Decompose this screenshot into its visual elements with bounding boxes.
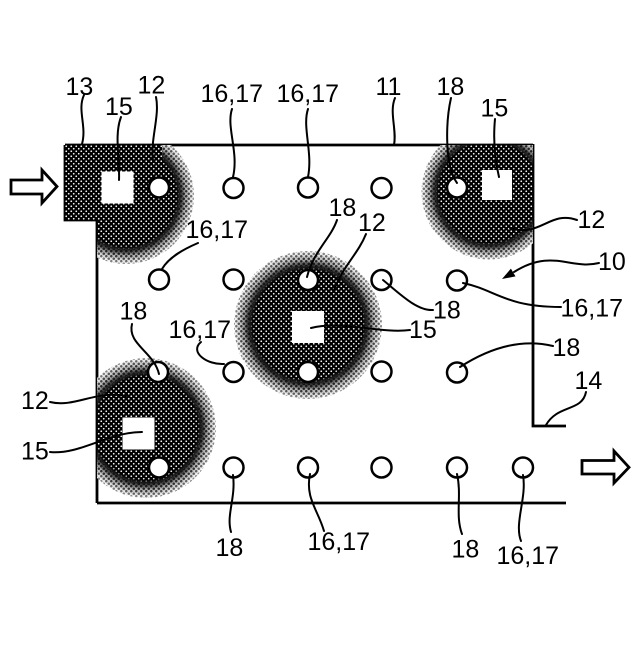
svg-text:15: 15 xyxy=(21,438,49,466)
hole 16,17 at (159,279.5) xyxy=(149,270,169,290)
leader 16,17 mid-left xyxy=(162,243,198,269)
hole 16,17 at (523,467.5) xyxy=(513,458,533,478)
center shaded circle 12 xyxy=(234,251,382,399)
svg-text:12: 12 xyxy=(138,72,166,100)
svg-text:14: 14 xyxy=(575,367,603,395)
leader 12 bottom-left xyxy=(50,395,126,403)
disc 18 top-right xyxy=(447,178,467,198)
leader 12 right xyxy=(510,218,577,230)
svg-text:15: 15 xyxy=(481,95,509,123)
svg-text:16,17: 16,17 xyxy=(308,528,371,556)
leader 16,17 bottom1 xyxy=(309,474,324,531)
left edge and inlet notch xyxy=(65,145,97,503)
svg-text:15: 15 xyxy=(409,316,437,344)
inlet block 13 (dark halftone rectangle) xyxy=(65,145,162,220)
top-right shaded circle 12 xyxy=(422,125,557,260)
hole 16,17 at (457,467.5) xyxy=(447,458,467,478)
leader 18 center-top xyxy=(307,220,337,277)
disc 18 bottom-left upper xyxy=(148,362,168,382)
hole 16,17 at (233.5,467.5) xyxy=(224,458,244,478)
leader 11 xyxy=(393,98,395,145)
hole 16,17 at (308,187.5) xyxy=(298,178,318,198)
hole 16,17 at (308,467.5) xyxy=(298,458,318,478)
svg-text:18: 18 xyxy=(329,194,357,222)
arrowhead for 10 xyxy=(502,269,516,279)
leader 18 bottom1 xyxy=(230,475,234,532)
svg-text:16,17: 16,17 xyxy=(201,80,264,108)
leader lines xyxy=(50,95,599,541)
hole 16,17 at (233.5,188) xyxy=(224,178,244,198)
hole 16,17 at (381.5,371.5) xyxy=(372,362,392,382)
svg-text:18: 18 xyxy=(216,534,244,562)
svg-text:16,17: 16,17 xyxy=(277,80,340,108)
inlet arrow xyxy=(11,170,57,203)
svg-text:15: 15 xyxy=(105,93,133,121)
disc 18 center top xyxy=(298,270,318,290)
svg-text:18: 18 xyxy=(433,297,461,325)
leader 15 top-left xyxy=(118,117,121,180)
square hole 15 (top-left) xyxy=(102,172,134,204)
outlined holes 16,17 xyxy=(149,178,533,478)
top edge xyxy=(65,144,533,147)
leader 15 bottom-left xyxy=(50,432,142,452)
svg-text:16,17: 16,17 xyxy=(561,295,624,323)
bottom edge xyxy=(97,502,566,505)
hole 16,17 at (381.5,280) xyxy=(372,270,392,290)
right edge with outlet step 14 xyxy=(533,144,566,426)
leader 13 xyxy=(81,95,84,144)
leader 16,17 bottom2 xyxy=(519,475,524,541)
leader 16,17 lower-mid xyxy=(197,342,224,364)
square hole 15 (center) xyxy=(292,311,324,343)
leader 15 top-right xyxy=(494,119,499,177)
svg-text:10: 10 xyxy=(598,248,626,276)
hole 16,17 at (457,280.5) xyxy=(447,271,467,291)
svg-text:16,17: 16,17 xyxy=(169,316,232,344)
leader 18 bottom2 xyxy=(457,474,462,534)
top-left shaded circle 12 xyxy=(58,128,194,264)
bottom-left shaded circle 12 xyxy=(76,358,216,498)
hole 16,17 at (233.5,372) xyxy=(224,362,244,382)
leader 12 center xyxy=(334,234,366,290)
leader 16,17 top2 xyxy=(306,109,309,177)
svg-text:18: 18 xyxy=(553,334,581,362)
leader 18 left-mid xyxy=(131,324,159,374)
outlet arrow xyxy=(582,451,629,483)
svg-text:12: 12 xyxy=(21,387,49,415)
leader 16,17 top1 xyxy=(230,109,234,177)
shaded diffusion circles 12 (clipped to plate) xyxy=(58,125,557,499)
leader 15 center xyxy=(311,325,410,330)
hole 16,17 at (233.5,279.5) xyxy=(224,270,244,290)
disc 18 center bottom xyxy=(298,362,318,382)
svg-text:16,17: 16,17 xyxy=(497,542,560,570)
white discs 18 inside shaded zones xyxy=(148,178,467,478)
leader 18 row2-mid xyxy=(383,280,433,310)
square hole 15 (bottom-left) xyxy=(123,418,155,450)
square hole 15 (top-right) xyxy=(482,170,512,200)
svg-text:13: 13 xyxy=(66,73,94,101)
leader 10 (with arrow) xyxy=(514,260,599,272)
leader 12 top-left xyxy=(152,97,157,161)
svg-text:16,17: 16,17 xyxy=(186,216,249,244)
leader 14 xyxy=(546,392,586,425)
hole 16,17 at (381.5,467.5) xyxy=(372,458,392,478)
disc 18 top-left xyxy=(149,178,169,198)
svg-text:11: 11 xyxy=(376,73,402,101)
hole 16,17 at (457,372.5) xyxy=(447,363,467,383)
disc 18 bottom-left lower xyxy=(149,458,169,478)
svg-text:18: 18 xyxy=(120,298,148,326)
svg-text:18: 18 xyxy=(452,536,480,564)
plate outline 11 xyxy=(65,144,566,503)
svg-text:12: 12 xyxy=(578,206,606,234)
leader 16,17 right xyxy=(463,283,561,307)
leader 18 right-mid xyxy=(460,343,553,367)
hole 16,17 at (381.5,188) xyxy=(372,178,392,198)
svg-text:18: 18 xyxy=(437,73,465,101)
leader 18 top-right xyxy=(447,98,457,183)
svg-text:12: 12 xyxy=(358,209,386,237)
